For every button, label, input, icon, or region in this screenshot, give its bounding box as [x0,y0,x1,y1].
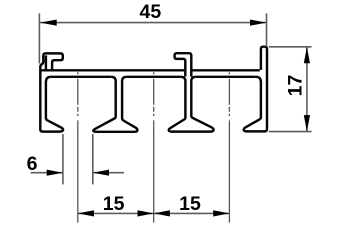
extension line left [38,13,40,63]
T-rail 1 (stem and asymmetric foot) [93,77,137,132]
dimension tail right [93,172,124,174]
extension line right [92,134,94,184]
centerline channel 2 [153,72,155,140]
left wall inner face above plate [45,55,47,69]
arrow 15 right outer [213,210,229,216]
dimension 6 [31,134,124,184]
arrow 15 middle right [154,210,170,216]
arrow 45 left [40,20,57,26]
dimension 15 / 15 [78,212,230,214]
dimension 45 [39,13,266,63]
plate bottom line segment 1 [51,76,111,78]
svg-text:15: 15 [179,193,201,215]
dimension tail left [31,172,63,174]
arrow 15 left outer [78,210,94,216]
arrow 17 down [304,115,310,132]
centerline channel 3 [228,72,230,140]
arrow 6 (points left) [93,170,109,176]
dimension line 15-15 [78,212,230,214]
plate bottom line segment 3 [196,76,256,78]
svg-text:15: 15 [103,193,125,215]
arrow 6 (points right) [47,170,63,176]
plate top line (left of middle rib) [42,69,185,71]
extension line top [269,46,312,48]
dimension line 45 [40,22,266,24]
centerlines (dash-dot) [78,72,230,222]
extension line left [62,134,64,184]
extension line bottom [269,131,312,133]
arrow 17 up [304,47,310,64]
extension line right [266,13,268,46]
svg-text:17: 17 [285,75,307,97]
dimension 17 [269,47,312,132]
arrow 15 middle left [138,210,154,216]
svg-text:6: 6 [27,153,38,175]
right wall with raised top and bottom foot [244,47,267,132]
T-rail 2 (stem and asymmetric foot) [169,77,214,132]
plate top line (right of middle rib) [192,69,259,71]
arrow 45 right [250,20,267,26]
plate bottom line segment 2 [127,76,181,78]
svg-text:45: 45 [140,1,162,23]
left wall with top hook and bottom foot [40,53,63,131]
centerline channel 1 [77,72,79,140]
middle hook (top of T-rail 2 stem) [175,53,192,77]
dimension line 17 [306,47,308,132]
